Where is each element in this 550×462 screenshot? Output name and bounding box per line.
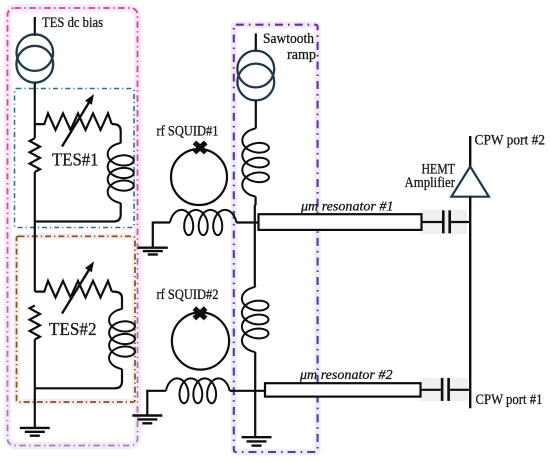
wire from TES#1 coil to bottom wire — [35, 203, 121, 222]
wire L3 to feed junction 1 — [254, 197, 257, 287]
svg-text:CPW port #1: CPW port #1 — [476, 392, 543, 408]
ramp inductor L3 (vertical coil) — [242, 129, 269, 197]
microwave resonator #2 (rectangle) — [265, 383, 421, 396]
HEMT amplifier (triangle) — [451, 167, 489, 197]
svg-text:μm resonator #1: μm resonator #1 — [300, 200, 394, 215]
ground (Sawtooth) — [242, 436, 272, 438]
inductor L2 of TES#2 (vertical coil) — [109, 309, 135, 369]
TES#1 dashed box (blue) — [15, 89, 135, 228]
wire from source into TES#1 — [34, 83, 36, 124]
wire top lead into TES dc bias source — [34, 17, 36, 36]
svg-text:Sawtooth: Sawtooth — [263, 31, 314, 47]
left wire TES#1 down to bottom — [34, 172, 36, 222]
Josephson junction X on SQUID#1 — [194, 142, 205, 152]
inductor L1 of TES#1 (vertical coil) — [108, 143, 134, 203]
wire resonator #1 to capacitor C1 — [422, 221, 443, 223]
Josephson junction X on SQUID#2 — [194, 308, 205, 318]
Sawtooth ramp dashed box (purple) — [234, 25, 318, 452]
microwave resonator #1 (rectangle) — [259, 214, 422, 230]
CPW port #2 lead — [469, 136, 471, 167]
checker band capacitor C2 — [421, 378, 469, 401]
wire between TES#1 and TES#2 — [34, 222, 36, 292]
arrow of variable resistor TES#2 — [62, 267, 91, 313]
ground (TES branch) — [20, 427, 50, 429]
wire from TES#2 coil to bottom wire — [35, 369, 122, 388]
arrow of variable resistor TES#1 — [62, 100, 91, 147]
svg-text:Amplifier: Amplifier — [405, 175, 456, 191]
input coil of SQUID#1 (horizontal coil) — [170, 210, 236, 235]
current source Sawtooth ramp (two overlapping circles) — [237, 51, 274, 88]
ramp inductor L4 (vertical coil) — [242, 287, 269, 352]
rf SQUID#1 loop (circle) — [171, 149, 227, 205]
left wire TES#2 down to bottom — [34, 340, 36, 389]
wire source to ramp inductor L3 — [255, 100, 257, 128]
wire resonator #2 to capacitor C2 — [421, 389, 442, 391]
ground (SQUID#1) — [138, 246, 168, 248]
svg-text:CPW port #2: CPW port #2 — [475, 132, 546, 148]
svg-text:ramp: ramp — [287, 47, 316, 63]
wire SQUID#2 coil left to ground riser — [147, 391, 166, 416]
halo under brown box — [17, 236, 136, 402]
shunt resistor TES#2 (vertical zigzag on left wire) — [30, 306, 40, 340]
svg-text:rf SQUID#2: rf SQUID#2 — [157, 287, 219, 303]
variable resistor TES#2 (horizontal zigzag) — [35, 281, 112, 298]
svg-text:TES#1: TES#1 — [52, 150, 99, 170]
TES#2 dashed box (brown) — [17, 236, 136, 402]
input coil of SQUID#2 (horizontal coil) — [166, 378, 230, 403]
CPW main line — [469, 197, 471, 409]
svg-text:rf SQUID#1: rf SQUID#1 — [157, 124, 219, 140]
svg-text:μm resonator #2: μm resonator #2 — [299, 368, 393, 383]
svg-text:TES dc bias: TES dc bias — [42, 15, 103, 31]
wire L4 to ground — [254, 352, 256, 437]
halo under pink box — [8, 8, 138, 446]
wire capacitor C2 to CPW line — [449, 389, 470, 391]
wire SQUID#2 coil right to resonator feed — [230, 390, 265, 392]
current source TES dc bias (two overlapping circles) — [17, 34, 54, 71]
wire top lead into Sawtooth source — [255, 33, 257, 52]
wire SQUID#1 coil right to resonator feed — [236, 221, 258, 223]
variable resistor TES#1 (horizontal zigzag) — [35, 113, 112, 130]
wire capacitor C1 to CPW line — [450, 221, 470, 223]
ground (SQUID#2) — [132, 414, 162, 416]
rf SQUID#2 loop (circle) — [172, 312, 229, 369]
capacitor C2 — [441, 378, 444, 401]
svg-text:TES#2: TES#2 — [49, 319, 97, 339]
checker band capacitor C1 — [422, 210, 468, 235]
TES dc bias dashed box (pink) — [8, 8, 138, 446]
wire TES#2 bottom to ground — [34, 388, 36, 428]
capacitor C1 — [442, 210, 445, 233]
wire SQUID#1 coil left to ground riser — [153, 223, 170, 248]
shunt resistor TES#1 (vertical zigzag on left wire) — [34, 124, 36, 138]
halo under purple box — [234, 25, 318, 452]
